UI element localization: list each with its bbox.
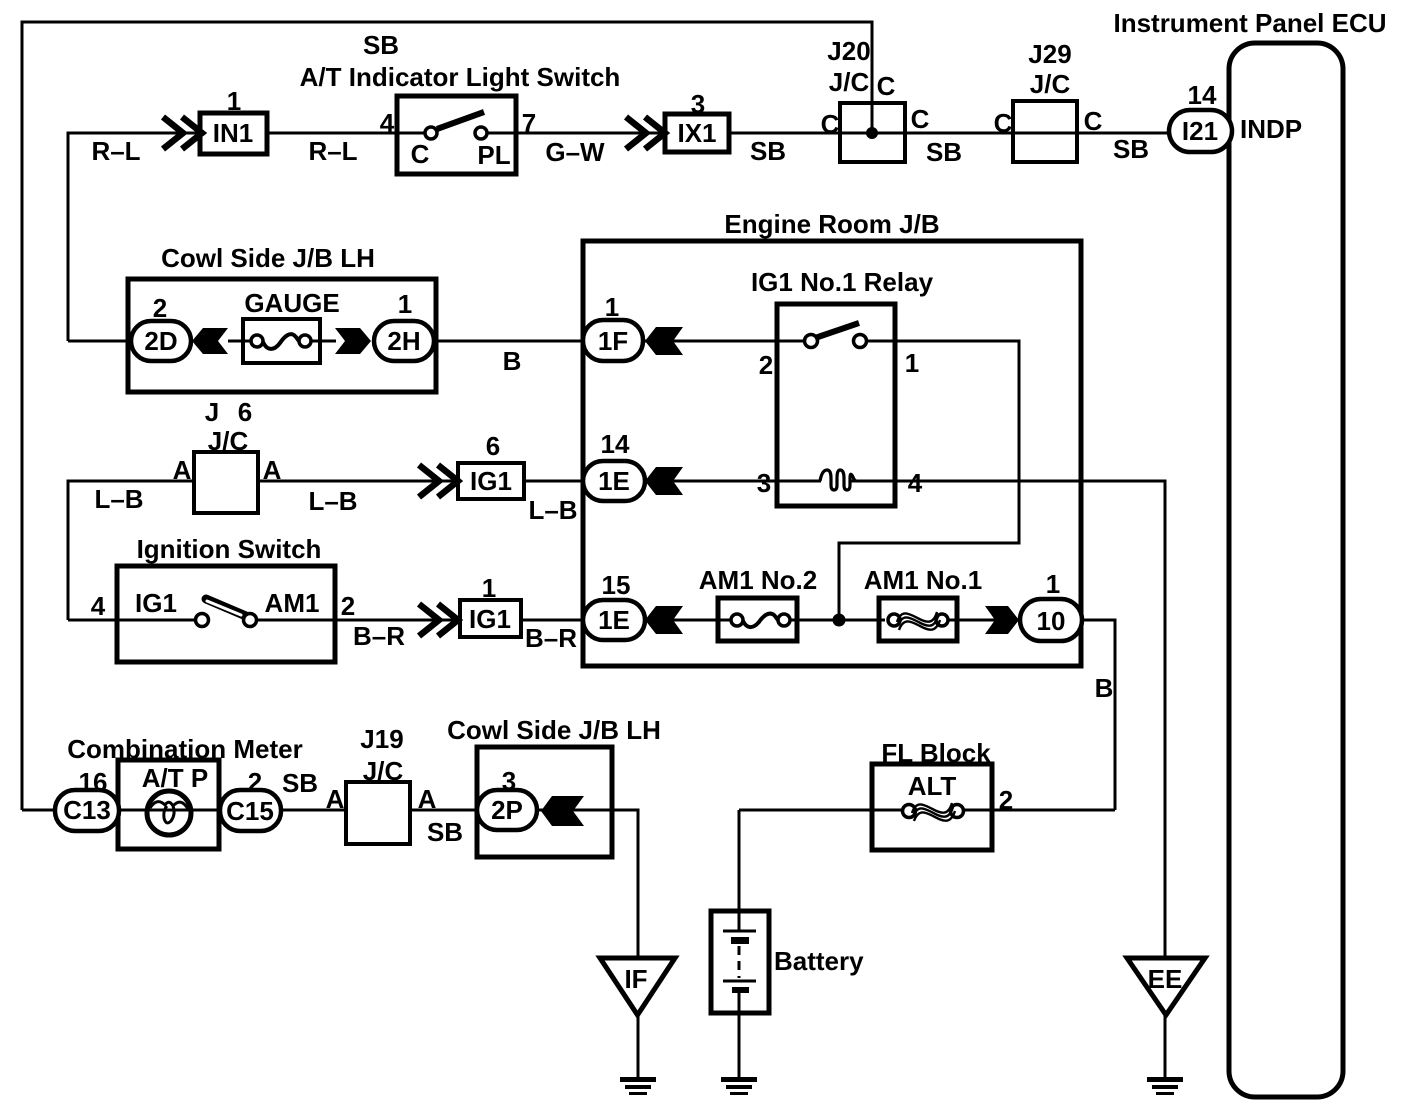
svg-text:10: 10 xyxy=(1037,606,1066,636)
svg-text:Battery: Battery xyxy=(774,946,864,976)
svg-text:15: 15 xyxy=(602,570,631,600)
svg-text:J: J xyxy=(205,397,219,427)
svg-text:PL: PL xyxy=(477,140,510,170)
svg-text:C: C xyxy=(877,71,896,101)
svg-text:AM1: AM1 xyxy=(265,588,320,618)
svg-text:2P: 2P xyxy=(491,795,523,825)
svg-text:J/C: J/C xyxy=(208,426,249,456)
svg-text:1: 1 xyxy=(1046,569,1060,599)
svg-text:1: 1 xyxy=(605,292,619,322)
svg-text:SB: SB xyxy=(926,137,962,167)
svg-text:C15: C15 xyxy=(226,796,274,826)
svg-text:1: 1 xyxy=(482,573,496,603)
svg-text:2: 2 xyxy=(759,350,773,380)
svg-text:J20: J20 xyxy=(827,36,870,66)
svg-text:J/C: J/C xyxy=(363,756,404,786)
svg-text:FL Block: FL Block xyxy=(881,738,991,768)
svg-text:G–W: G–W xyxy=(545,137,605,167)
svg-text:2: 2 xyxy=(999,785,1013,815)
svg-text:R–L: R–L xyxy=(308,136,357,166)
svg-text:1: 1 xyxy=(227,86,241,116)
svg-text:16: 16 xyxy=(79,767,108,797)
svg-text:2D: 2D xyxy=(144,326,177,356)
svg-text:1: 1 xyxy=(905,348,919,378)
svg-text:C: C xyxy=(821,109,840,139)
svg-text:IG1: IG1 xyxy=(135,588,177,618)
svg-text:IX1: IX1 xyxy=(677,118,716,148)
svg-text:1: 1 xyxy=(398,289,412,319)
svg-text:SB: SB xyxy=(750,136,786,166)
svg-text:IF: IF xyxy=(624,964,647,994)
svg-text:C: C xyxy=(994,108,1013,138)
svg-text:4: 4 xyxy=(908,468,923,498)
svg-text:IG1 No.1 Relay: IG1 No.1 Relay xyxy=(751,267,934,297)
svg-text:L–B: L–B xyxy=(308,486,357,516)
svg-text:J/C: J/C xyxy=(829,67,870,97)
svg-text:A: A xyxy=(418,784,437,814)
svg-text:14: 14 xyxy=(601,429,630,459)
svg-text:1E: 1E xyxy=(598,605,630,635)
svg-text:4: 4 xyxy=(91,591,106,621)
svg-text:B: B xyxy=(1095,673,1114,703)
svg-text:2: 2 xyxy=(248,767,262,797)
svg-text:Cowl Side J/B LH: Cowl Side J/B LH xyxy=(447,715,661,745)
svg-text:2: 2 xyxy=(341,591,355,621)
svg-text:A: A xyxy=(326,784,345,814)
svg-text:3: 3 xyxy=(691,89,705,119)
svg-text:SB: SB xyxy=(1113,134,1149,164)
svg-text:C: C xyxy=(1084,106,1103,136)
svg-text:C: C xyxy=(411,139,430,169)
svg-text:1E: 1E xyxy=(598,466,630,496)
svg-text:AM1 No.2: AM1 No.2 xyxy=(699,565,817,595)
svg-text:A: A xyxy=(173,455,192,485)
svg-text:AM1 No.1: AM1 No.1 xyxy=(864,565,982,595)
svg-text:SB: SB xyxy=(363,30,399,60)
svg-text:Combination Meter: Combination Meter xyxy=(67,734,302,764)
svg-text:2H: 2H xyxy=(387,326,420,356)
svg-text:B–R: B–R xyxy=(525,623,577,653)
svg-text:14: 14 xyxy=(1188,80,1217,110)
svg-text:L–B: L–B xyxy=(528,495,577,525)
svg-text:Cowl Side J/B LH: Cowl Side J/B LH xyxy=(161,243,375,273)
svg-text:R–L: R–L xyxy=(91,136,140,166)
svg-text:IG1: IG1 xyxy=(469,604,511,634)
svg-text:7: 7 xyxy=(522,108,536,138)
svg-text:A/T P: A/T P xyxy=(142,763,208,793)
svg-text:C: C xyxy=(911,104,930,134)
svg-text:J19: J19 xyxy=(360,724,403,754)
svg-text:C13: C13 xyxy=(63,795,111,825)
svg-text:GAUGE: GAUGE xyxy=(244,288,339,318)
svg-text:IG1: IG1 xyxy=(470,466,512,496)
svg-text:2: 2 xyxy=(153,293,167,323)
svg-text:3: 3 xyxy=(757,468,771,498)
svg-text:I21: I21 xyxy=(1182,116,1218,146)
svg-text:Engine Room J/B: Engine Room J/B xyxy=(724,209,939,239)
svg-text:J29: J29 xyxy=(1028,39,1071,69)
svg-text:L–B: L–B xyxy=(94,484,143,514)
svg-text:6: 6 xyxy=(486,431,500,461)
svg-text:SB: SB xyxy=(282,768,318,798)
svg-text:IN1: IN1 xyxy=(213,118,253,148)
svg-text:J/C: J/C xyxy=(1030,69,1071,99)
svg-text:6: 6 xyxy=(238,397,252,427)
svg-text:4: 4 xyxy=(380,108,395,138)
svg-text:EE: EE xyxy=(1148,964,1183,994)
svg-text:A/T Indicator Light Switch: A/T Indicator Light Switch xyxy=(300,62,621,92)
svg-text:SB: SB xyxy=(427,817,463,847)
svg-text:3: 3 xyxy=(502,766,516,796)
svg-text:1F: 1F xyxy=(598,326,628,356)
svg-text:B–R: B–R xyxy=(353,621,405,651)
svg-text:Instrument Panel ECU: Instrument Panel ECU xyxy=(1113,8,1386,38)
svg-text:INDP: INDP xyxy=(1240,114,1302,144)
svg-text:B: B xyxy=(503,346,522,376)
svg-text:ALT: ALT xyxy=(908,771,957,801)
svg-text:Ignition Switch: Ignition Switch xyxy=(137,534,322,564)
svg-text:A: A xyxy=(263,455,282,485)
